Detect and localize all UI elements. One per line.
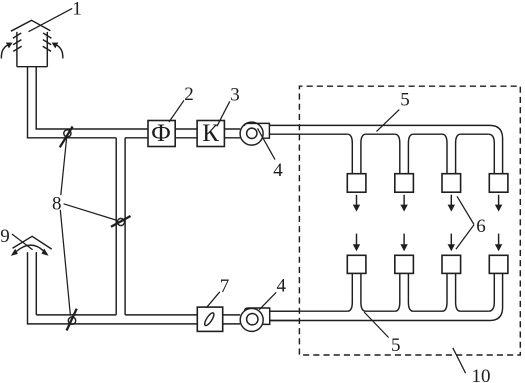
svg-text:7: 7 bbox=[220, 276, 230, 297]
wire: main supply duct bottom line segments with branch openings bbox=[270, 133, 348, 135]
svg-text:К: К bbox=[202, 120, 219, 147]
exhaust air arrow col2 bbox=[400, 234, 407, 252]
supply air arrow col1 bbox=[353, 195, 360, 212]
wire: duct filter7 to exhaust fan bbox=[223, 315, 241, 324]
svg-text:5: 5 bbox=[391, 335, 401, 356]
exhaust air arrow col4 bbox=[495, 234, 502, 252]
svg-text:2: 2 bbox=[184, 84, 194, 105]
wire: exhaust shaft 9 inner line bbox=[35, 252, 37, 315]
supply diffuser box 6 col4 bbox=[489, 174, 508, 193]
leader line for label 4 bottom bbox=[259, 292, 276, 309]
wire: supply branch 3 bbox=[442, 134, 461, 174]
svg-text:1: 1 bbox=[72, 0, 82, 19]
leader line for label 8 to damper 8c bbox=[60, 210, 70, 316]
filter box 7: slanted ellipse element bbox=[203, 312, 215, 327]
supply fan 4 (top): casing bbox=[244, 123, 269, 138]
wire: exhaust branch 3 bbox=[442, 273, 461, 311]
wire: supply branch 2 bbox=[395, 134, 414, 174]
svg-text:3: 3 bbox=[230, 84, 240, 105]
damper 8b on recirculation duct bbox=[117, 218, 124, 225]
svg-text:8: 8 bbox=[52, 194, 62, 215]
exhaust grille box 6 col1 bbox=[347, 255, 366, 273]
wire: exhaust duct bottom line from shaft corner to filter 7 bbox=[28, 252, 198, 324]
wire: main exhaust duct top line segments bbox=[270, 310, 348, 312]
exhaust air arrow col3 bbox=[448, 234, 455, 252]
svg-text:4: 4 bbox=[277, 275, 287, 296]
svg-text:Ф: Ф bbox=[151, 120, 171, 147]
air intake unit 1: roof bbox=[11, 20, 51, 31]
wire: duct filter to heater bbox=[175, 129, 197, 138]
leader line for label 10 bbox=[453, 348, 466, 373]
wire: supply branch 4 inner line bbox=[488, 134, 494, 174]
wire: exhaust duct left segment top line (interrupted at recirculation tee) bbox=[36, 314, 197, 316]
svg-text:9: 9 bbox=[0, 226, 10, 247]
air intake unit 1: right inflow arrow bbox=[55, 44, 63, 58]
exhaust air arrow col1 bbox=[353, 234, 360, 252]
supply diffuser box 6 col1 bbox=[347, 174, 366, 193]
leader line for label 5 top bbox=[377, 110, 400, 132]
wire: fresh-air duct inner line bbox=[36, 67, 148, 129]
exhaust fan 4 (bottom): impeller circles bbox=[240, 308, 263, 331]
wire: main supply duct top line with right end bend down to branch 4 bbox=[270, 125, 503, 173]
leader line for label 6 lower bbox=[456, 225, 474, 249]
exhaust fan 4 (bottom): casing bbox=[245, 308, 270, 324]
exhaust grille box 6 col2 bbox=[395, 255, 414, 273]
air intake unit 1: right louvers bbox=[43, 33, 52, 51]
leader line for label 7 bbox=[206, 292, 220, 308]
filter box 7 bbox=[197, 307, 222, 331]
wire: main exhaust duct bottom line with right end bend up to branch 4 bbox=[270, 273, 503, 320]
supply air arrow col3 bbox=[448, 195, 455, 212]
leader line for label 3 bbox=[217, 101, 230, 126]
svg-text:10: 10 bbox=[472, 366, 491, 383]
wire: exhaust branch 4 inner line bbox=[488, 273, 494, 311]
air intake unit 1: left inflow arrow bbox=[1, 44, 9, 58]
damper 8c on exhaust duct bbox=[68, 317, 75, 324]
supply air arrow col4 bbox=[495, 195, 502, 212]
svg-text:5: 5 bbox=[400, 90, 410, 111]
supply fan 4 (top): impeller circles bbox=[240, 122, 263, 145]
supply diffuser box 6 col3 bbox=[442, 174, 461, 193]
exhaust grille box 6 col4 bbox=[489, 255, 508, 273]
room boundary 10 (dashed) bbox=[299, 86, 520, 355]
heater box K (3) bbox=[197, 121, 224, 147]
svg-text:6: 6 bbox=[476, 216, 486, 237]
leader line for label 2 bbox=[169, 100, 184, 122]
leader line for label 8 to damper 8b bbox=[64, 204, 117, 221]
exhaust shaft 9: roof bbox=[13, 236, 52, 249]
leader line for label 6 upper bbox=[457, 196, 474, 224]
wire: duct heater to supply fan bbox=[224, 129, 240, 138]
wire: recirculation duct (vertical) bbox=[116, 138, 125, 315]
wire: exhaust branch 2 bbox=[395, 273, 414, 311]
air intake unit 1: left louvers bbox=[13, 33, 22, 51]
wire: fresh-air duct from intake down and right to filter (outer line) bbox=[28, 67, 149, 138]
svg-text:4: 4 bbox=[273, 160, 283, 181]
supply air arrow col2 bbox=[400, 195, 407, 212]
wire: duct exhaust fan to room bbox=[270, 311, 300, 320]
leader line for label 1 bbox=[29, 8, 73, 31]
leader line for label 4 top bbox=[258, 128, 276, 159]
exhaust shaft 9: outflow arrows arc bbox=[16, 245, 44, 251]
exhaust grille box 6 col3 bbox=[442, 255, 461, 273]
damper 8a on fresh-air duct bbox=[64, 130, 71, 137]
wire: exhaust branch 1 bbox=[347, 273, 366, 311]
leader line for label 5 bottom bbox=[364, 312, 389, 338]
supply diffuser box 6 col2 bbox=[395, 174, 414, 193]
leader line for label 8 to damper 8a bbox=[61, 138, 67, 195]
filter box F (2) bbox=[148, 121, 175, 147]
leader line for label 9 bbox=[12, 234, 33, 250]
wire: supply branch 1 bbox=[347, 134, 366, 174]
air intake unit 1: body walls and bottom bbox=[17, 32, 47, 67]
